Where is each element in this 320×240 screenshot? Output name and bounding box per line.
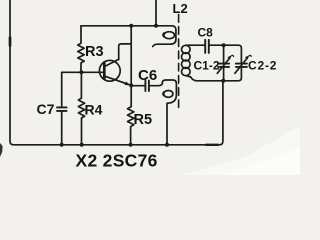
wire top rail — [81, 25, 172, 27]
wire tank bottom — [191, 67, 242, 81]
variable capacitor C1-2 — [223, 45, 225, 63]
emitter arrowhead — [124, 82, 130, 86]
resistor R3 — [78, 26, 84, 73]
resistor R4 — [78, 72, 84, 144]
svg-text:L2: L2 — [173, 1, 188, 16]
capacitor C8 — [204, 40, 206, 53]
svg-text:C2-2: C2-2 — [248, 59, 277, 73]
inductor L2 secondary — [186, 44, 193, 46]
svg-text:C6: C6 — [138, 67, 157, 84]
node rail R4 — [80, 143, 84, 147]
inductor L2 primary top section — [153, 26, 176, 47]
variable capacitor C2-2 — [236, 63, 247, 65]
node rail C7 — [60, 143, 64, 147]
wire collector stub — [119, 44, 132, 60]
transformer core dashed — [178, 15, 180, 111]
left edge dark smudge — [0, 143, 3, 157]
svg-text:C7: C7 — [37, 101, 55, 117]
node C1-2 bottom — [221, 79, 225, 83]
capacitor C7 — [61, 72, 63, 106]
capacitor C6 — [131, 85, 144, 87]
node emitter junction — [129, 83, 133, 87]
svg-text:C1-2: C1-2 — [194, 59, 220, 73]
node collector rail junction — [129, 24, 133, 28]
transistor Q1 2SC76 — [99, 60, 120, 81]
node B+ stub junction — [154, 24, 158, 28]
wire main vertical with resistor R5 — [128, 26, 134, 144]
svg-text:R5: R5 — [134, 112, 153, 128]
inductor L2 primary bottom section — [162, 80, 176, 144]
node base junction — [79, 70, 83, 74]
wire B+ stub top — [155, 0, 157, 26]
svg-text:X2 2SC76: X2 2SC76 — [76, 151, 158, 171]
svg-text:R4: R4 — [85, 102, 103, 118]
page edge highlight bottom-right — [180, 126, 300, 175]
svg-text:R3: R3 — [85, 44, 104, 60]
paper background — [0, 0, 300, 175]
node C1-2 top — [222, 43, 226, 47]
wire left vertical + bottom rail + right riser to tank — [10, 0, 223, 145]
node rail R5 — [129, 143, 133, 147]
svg-text:C8: C8 — [198, 25, 214, 39]
wire ink blob on bottom rail — [206, 144, 218, 146]
wire tank top — [193, 44, 204, 46]
wire base lead — [62, 71, 104, 73]
wire ink blob on left vertical — [9, 38, 12, 46]
node rail L2 — [165, 143, 169, 147]
